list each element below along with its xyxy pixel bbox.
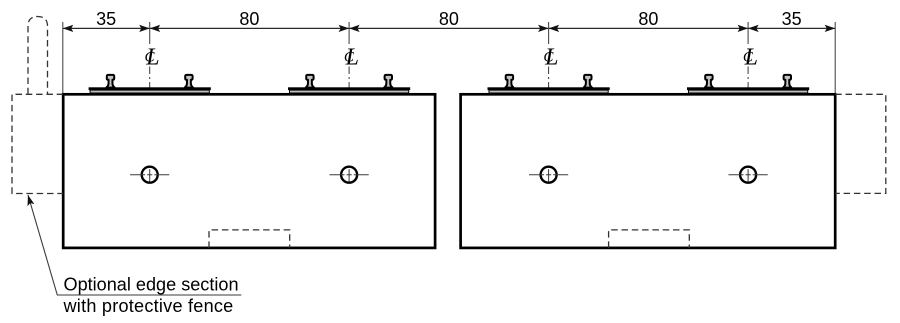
- svg-text:80: 80: [439, 9, 459, 29]
- rail pad 1: [89, 75, 211, 93]
- centerline dashes 4: [747, 67, 749, 195]
- extension tick at centerline 2: [348, 22, 350, 44]
- extension line right (slab edge): [834, 22, 836, 93]
- arrowheads of dimension 80 (third): [549, 25, 560, 32]
- centerline dashes 1: [149, 67, 151, 195]
- svg-text:Optional edge section: Optional edge section: [64, 274, 239, 294]
- optional edge section right (dashed box): [835, 94, 886, 193]
- hole 4: [729, 167, 768, 183]
- centerline dashes 2: [348, 67, 350, 195]
- slab left: [63, 94, 435, 248]
- leader arrowhead: [25, 194, 35, 206]
- svg-text:80: 80: [239, 9, 259, 29]
- arrowheads of dimension 80 (first): [150, 25, 161, 32]
- svg-text:with protective fence: with protective fence: [63, 296, 234, 316]
- svg-text:35: 35: [782, 9, 802, 29]
- notch right slab (dashed): [609, 230, 690, 248]
- centerline symbol 3: [543, 45, 558, 71]
- extension tick at centerline 1: [149, 22, 151, 44]
- hole 2: [330, 167, 369, 183]
- centerline symbol 4: [743, 45, 758, 71]
- arrowheads of dimension 80 (middle): [349, 25, 360, 32]
- extension line left (slab edge): [62, 22, 64, 93]
- extension tick at centerline 4: [747, 22, 749, 44]
- centerline dashes 3: [548, 67, 550, 195]
- arrowheads of dimension 35 (left): [63, 25, 74, 32]
- notch left slab (dashed): [209, 230, 290, 248]
- optional edge section left (dashed box): [12, 94, 63, 193]
- rail pad 4: [687, 75, 809, 93]
- centerline symbol 2: [344, 45, 359, 71]
- protective fence post (dashed, rounded top): [28, 17, 48, 95]
- slab right: [461, 94, 836, 248]
- rail pad 2: [288, 75, 410, 93]
- arrowheads of dimension 35 (right): [748, 25, 759, 32]
- hole 1: [130, 167, 169, 183]
- centerline symbol 1: [145, 45, 160, 71]
- svg-text:35: 35: [96, 9, 116, 29]
- dimension line (top, y=28.4): [63, 27, 835, 29]
- rail pad 3: [487, 75, 609, 93]
- leader line to optional edge section: [28, 195, 241, 295]
- svg-text:80: 80: [638, 9, 658, 29]
- extension tick at centerline 3: [548, 22, 550, 44]
- hole 3: [529, 167, 568, 183]
